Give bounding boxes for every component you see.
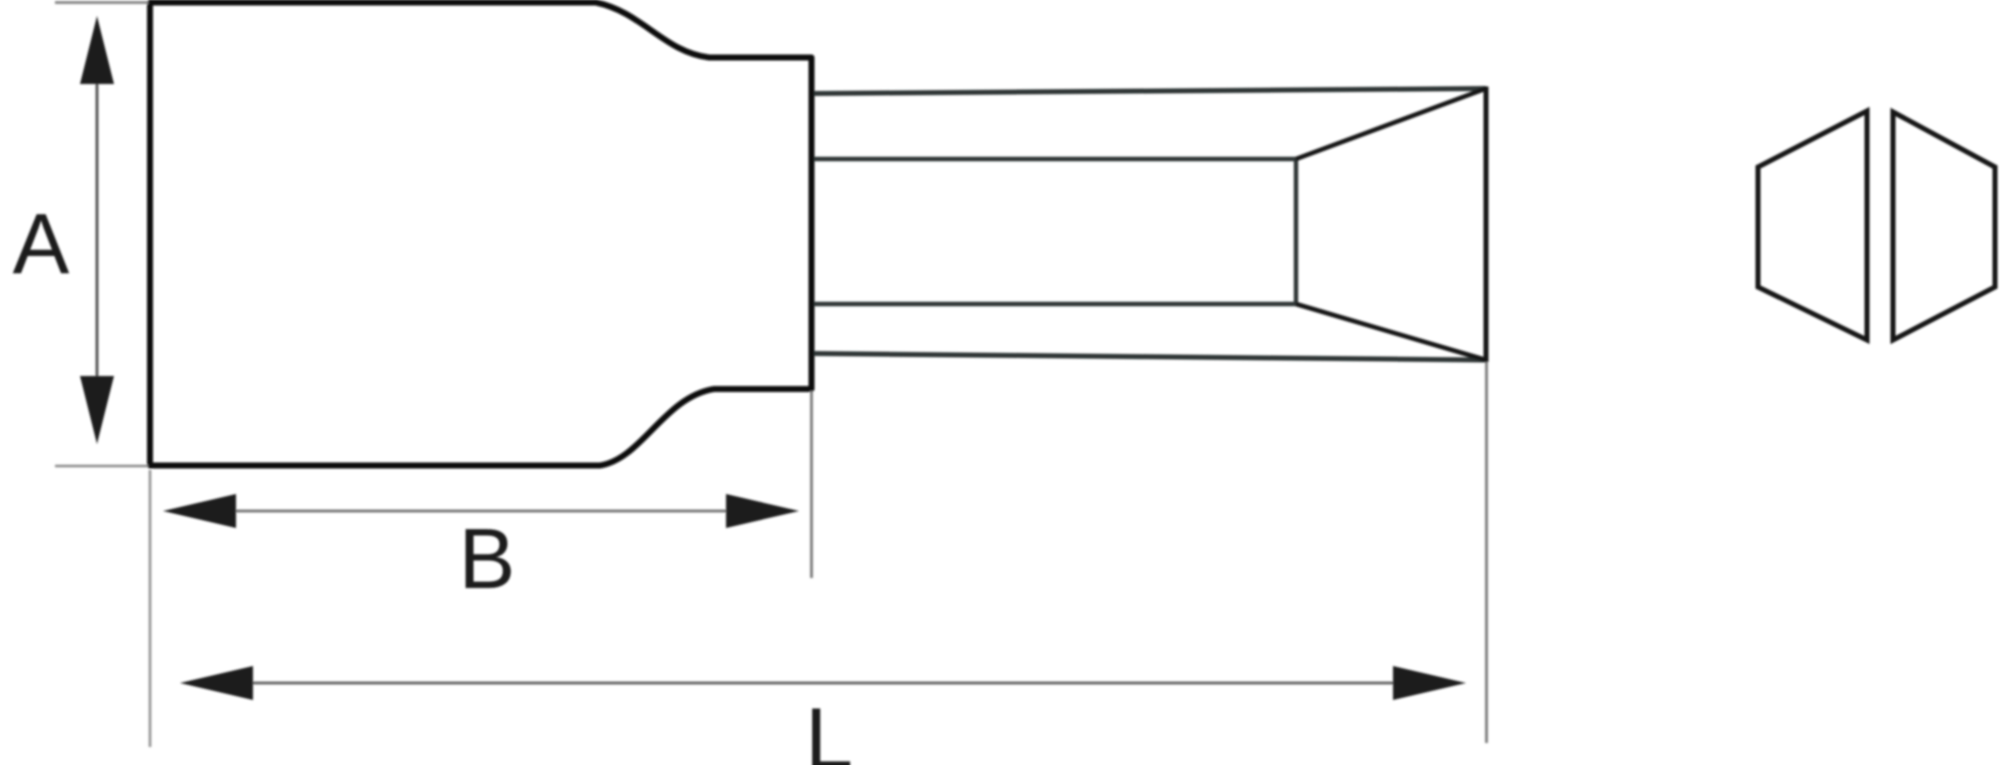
dimension B line: [232, 510, 730, 513]
dimension L line: [250, 682, 1396, 685]
dimension L left arrowhead: [180, 666, 253, 700]
hex shaft outer bottom line: [814, 354, 1486, 361]
extension line top left: [55, 1, 148, 4]
svg-text:A: A: [13, 197, 70, 292]
dimension A lower arrowhead: [80, 376, 114, 444]
extension line bottom left horizontal: [55, 465, 148, 468]
shaft taper start vertical: [1294, 159, 1298, 304]
extension line L right vertical: [1485, 362, 1488, 743]
svg-text:L: L: [805, 691, 853, 765]
hex shaft inner top facet line: [814, 157, 1296, 161]
hex end view left half: [1758, 111, 1867, 340]
svg-text:B: B: [459, 512, 516, 607]
socket body outline (drive end): [150, 3, 812, 466]
dimension B right arrowhead: [726, 494, 799, 528]
hex shaft inner bottom facet line: [814, 302, 1296, 306]
shaft tip upper chamfer diagonal: [1296, 89, 1486, 160]
extension line left vertical (B and L datum): [149, 470, 152, 747]
shaft tip end vertical edge: [1484, 87, 1489, 363]
shaft tip lower chamfer diagonal: [1296, 304, 1486, 360]
dimension L right arrowhead: [1393, 666, 1466, 700]
hex end view right half: [1893, 112, 1995, 340]
dimension B left arrowhead: [163, 494, 236, 528]
dimension A line: [96, 70, 99, 390]
extension line B right vertical: [810, 391, 813, 578]
hex shaft outer top line: [814, 89, 1486, 94]
dimension A upper arrowhead: [80, 16, 114, 84]
